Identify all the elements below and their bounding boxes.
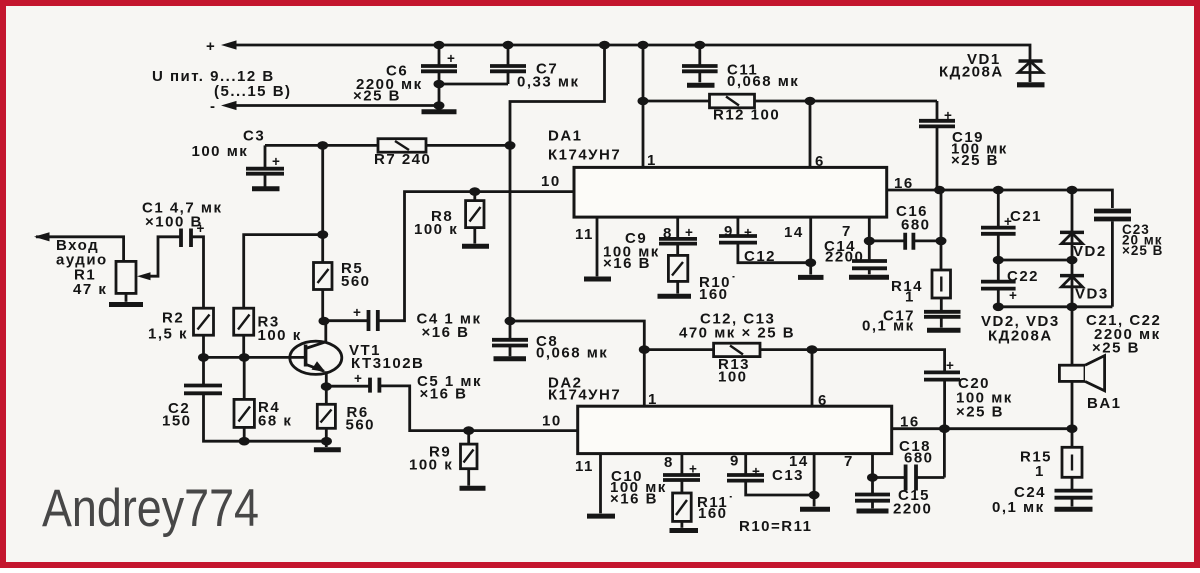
svg-text:C12: C12: [744, 248, 776, 265]
wire emitter node to C5: [326, 385, 370, 388]
ground under C15: [857, 509, 889, 514]
capacitor C15 plates: [855, 495, 890, 501]
svg-text:0,1 мк: 0,1 мк: [992, 499, 1045, 516]
svg-text:×16 В: ×16 В: [420, 386, 468, 403]
resistor R15 body: [1062, 447, 1082, 477]
svg-text:КД208А: КД208А: [939, 64, 1004, 81]
transistor VT1 circle: [290, 341, 342, 374]
capacitor C16 leads: [869, 239, 941, 242]
capacitor C12 leads: [738, 217, 811, 263]
diode VD3 cathode bar: [1060, 274, 1084, 278]
resistor R10 body: [668, 255, 687, 281]
svg-text:160: 160: [699, 286, 729, 303]
junction C16 right / R14: [936, 237, 947, 246]
svg-text:1: 1: [905, 289, 915, 306]
resistor R5 body: [314, 263, 333, 290]
ground pin14 DA2: [800, 507, 830, 512]
wire pin7 DA1: [868, 217, 871, 260]
wire C4 right to pin10 DA1: [378, 192, 574, 321]
junction C22 bottom node: [993, 303, 1004, 312]
resistor R4 lead top: [243, 357, 246, 399]
capacitor C21 plates: [981, 228, 1016, 234]
capacitor C10 plates: [663, 475, 700, 480]
junction C11 top rail: [694, 41, 705, 50]
capacitor C13 leads: [746, 454, 814, 495]
resistor R8 body: [466, 201, 484, 228]
diode VD3 lead: [1071, 260, 1074, 307]
svg-text:×25 В: ×25 В: [1122, 243, 1163, 258]
resistor R10 lead + ground: [676, 281, 679, 293]
junction VD2-VD3 midpoint: [1067, 256, 1078, 265]
diode VD2 cathode bar: [1060, 231, 1084, 235]
capacitor C24 lead + ground: [1071, 498, 1074, 507]
svg-text:×25 В: ×25 В: [1092, 340, 1140, 357]
resistor R6 slash: [321, 410, 332, 423]
resistor R1 body: [116, 261, 136, 293]
svg-text:+: +: [744, 225, 753, 240]
svg-text:+: +: [1009, 288, 1018, 303]
svg-text:×25 В: ×25 В: [956, 404, 1004, 421]
capacitor C6 plates: [421, 66, 457, 71]
resistor R15 lead bottom: [1071, 477, 1074, 490]
resistor R6 body: [317, 404, 335, 428]
resistor R9 body: [461, 444, 478, 469]
svg-text:8: 8: [663, 225, 673, 242]
svg-text:-: -: [210, 98, 217, 115]
junction pin7 DA2 / C15 / C18: [867, 473, 878, 482]
arrowhead input: [34, 232, 50, 241]
capacitor C8 leads: [509, 321, 512, 356]
resistor R9 slash: [464, 450, 474, 463]
arrowhead +rail: [221, 40, 237, 49]
arrowhead -rail: [221, 101, 237, 110]
junction R7 right feed: [505, 141, 516, 150]
capacitor C18 left wire: [873, 476, 906, 479]
capacitor C16 plates: [905, 233, 913, 250]
svg-text:8: 8: [664, 454, 674, 471]
resistor R12 body: [710, 94, 755, 108]
resistor R12 slash: [726, 97, 739, 106]
resistor R8 leads: [473, 192, 476, 244]
svg-text:100 мк: 100 мк: [192, 143, 249, 160]
svg-text:150: 150: [162, 413, 192, 430]
diode VD2 triangle: [1062, 233, 1083, 244]
resistor R7 body: [378, 139, 426, 153]
svg-text:1,5 к: 1,5 к: [148, 326, 188, 343]
ground under R10: [658, 294, 692, 299]
svg-text:VD2: VD2: [1073, 243, 1107, 260]
resistor R11 slash: [676, 500, 687, 515]
svg-text:6: 6: [815, 153, 825, 170]
capacitor C5 plates: [370, 378, 379, 393]
resistor R10 slash: [672, 262, 683, 276]
resistor R9 leads: [467, 431, 470, 486]
resistor R14 body: [932, 270, 951, 298]
capacitor C8 plates: [492, 340, 528, 346]
capacitor C21 leads: [997, 190, 1000, 260]
wire R5 bottom to collector node: [321, 290, 324, 322]
svg-text:0,1 мк: 0,1 мк: [862, 318, 915, 335]
svg-text:+: +: [354, 371, 363, 386]
junction C19 bottom pin16 line: [934, 186, 945, 195]
svg-text:680: 680: [904, 450, 934, 467]
capacitor C15 lead + ground: [871, 501, 874, 509]
junction R2 base node: [198, 353, 209, 362]
diode VD3 triangle: [1062, 276, 1083, 287]
junction C6 top rail: [434, 41, 445, 50]
capacitor C22 leads: [997, 260, 1000, 307]
svg-text:R12 100: R12 100: [713, 107, 780, 124]
resistor R3 slash: [238, 315, 250, 330]
capacitor C2 plates: [184, 386, 222, 394]
wire C5 to pin10 DA2: [379, 386, 577, 431]
svg-text:R2: R2: [162, 310, 184, 327]
junction R4 bottom: [239, 437, 250, 446]
resistor R8 slash: [470, 207, 481, 222]
capacitor C6 leads: [438, 45, 441, 110]
wire C1 to R2: [191, 237, 204, 308]
junction R9 top pin10 DA2 wire: [463, 426, 474, 435]
junction C13 to pin14 DA2 ground: [809, 491, 820, 500]
capacitor C7 plates: [490, 66, 526, 71]
capacitor C15 lead: [871, 478, 874, 494]
capacitor C12 plates: [719, 236, 757, 243]
junction C6 minus rail: [434, 101, 445, 110]
ground under C14: [849, 275, 889, 280]
svg-text:+: +: [197, 221, 206, 236]
resistor R13 slash: [730, 346, 743, 355]
ground under R6: [314, 447, 341, 452]
junction R3 branch: [317, 230, 328, 239]
wire C8 node to pin1 DA2: [510, 321, 644, 406]
wire R1 wiper to C1: [150, 237, 180, 276]
op-amp IC DA2 body: [578, 406, 892, 453]
wire pin1 DA1 drop: [642, 45, 645, 167]
wire +feed to C8 node: [510, 45, 605, 321]
capacitor C18 plates: [906, 465, 916, 491]
svg-text:560: 560: [346, 417, 376, 434]
svg-text:9: 9: [724, 223, 734, 240]
junction R13 left / pin1 DA2: [639, 345, 650, 354]
resistor R3 body: [234, 308, 254, 335]
wire R3 bottom: [242, 335, 245, 357]
capacitor C23 plates: [1094, 211, 1131, 219]
ground under R9: [460, 486, 486, 491]
svg-text:11: 11: [575, 226, 594, 243]
svg-text:+: +: [689, 462, 698, 477]
wire R2 bottom to base node: [202, 335, 205, 357]
resistor R4 lead bottom: [243, 427, 246, 441]
junction R6 bottom ground node: [321, 437, 332, 446]
junction C6-C7 link: [434, 80, 445, 89]
junction feed top rail: [599, 41, 610, 50]
svg-text:7: 7: [844, 453, 854, 470]
junction VD3 bottom / speaker node: [1067, 303, 1078, 312]
wire speaker to output node: [1071, 381, 1074, 428]
ground under R11: [670, 528, 699, 533]
wire bias vertical to R5/R3: [244, 145, 323, 308]
svg-text:+: +: [946, 358, 955, 373]
svg-text:+: +: [944, 108, 953, 123]
resistor R4 body: [234, 399, 254, 427]
svg-text:C13: C13: [772, 467, 804, 484]
svg-text:47 к: 47 к: [73, 281, 107, 298]
capacitor C18 right wire: [917, 429, 945, 478]
svg-text:×25 В: ×25 В: [353, 88, 401, 105]
svg-text:2200: 2200: [893, 501, 932, 518]
svg-text:К174УН7: К174УН7: [548, 147, 621, 164]
resistor R2 slash: [198, 315, 210, 330]
wire node to speaker: [1071, 307, 1074, 365]
ground pin14 DA1: [798, 275, 824, 280]
ground pin11 DA2: [587, 514, 615, 519]
capacitor C11 plates: [682, 66, 718, 71]
wire VD2/VD3 midpoint to C21/C22 midpoint: [998, 259, 1072, 262]
svg-text:68 к: 68 к: [258, 413, 292, 430]
wire R7 leads / bias rail: [265, 144, 510, 147]
svg-text:×25 В: ×25 В: [951, 152, 999, 169]
svg-text:КД208А: КД208А: [988, 328, 1053, 345]
capacitor C20 top wire from pin6 node: [812, 350, 945, 372]
svg-text:100 к: 100 к: [414, 221, 458, 238]
svg-text:10: 10: [541, 173, 561, 190]
junction VD2 pin16 line: [1067, 186, 1078, 195]
transistor VT1 collector: [306, 321, 326, 349]
node C8 feed: [505, 317, 516, 326]
resistor R13 leads: [644, 348, 812, 351]
capacitor C9 leads: [676, 217, 679, 255]
svg-text:6: 6: [818, 392, 828, 409]
svg-text:9: 9: [730, 453, 740, 470]
wire pin6 DA1 drop: [809, 101, 812, 167]
svg-text:Andrey774: Andrey774: [42, 479, 259, 538]
resistor R14 lead: [940, 298, 943, 311]
svg-text:+: +: [685, 225, 694, 240]
svg-text:100: 100: [718, 369, 748, 386]
junction R8 top pin10 wire: [469, 187, 480, 196]
capacitor C1 plates: [181, 229, 191, 248]
resistor R4 slash: [239, 407, 251, 422]
ground under C6: [422, 109, 457, 114]
svg-text:R7 240: R7 240: [374, 151, 431, 168]
svg-text:×100 В: ×100 В: [145, 214, 203, 231]
wire pin14 DA2: [813, 454, 816, 507]
svg-text:11: 11: [575, 458, 594, 475]
wire R12 leads: [643, 100, 937, 103]
svg-text:1: 1: [1035, 463, 1045, 480]
resistor R2 body: [194, 308, 214, 335]
svg-text:C3: C3: [243, 128, 265, 145]
speaker BA1 horn: [1085, 356, 1105, 391]
ground under C8: [494, 356, 527, 361]
svg-text:14: 14: [784, 224, 804, 241]
diode VD1 cathode bar: [1019, 59, 1043, 63]
diode VD2 lead: [1071, 190, 1074, 260]
junction R12 left / pin1 DA1: [638, 97, 649, 106]
svg-text:×16 В: ×16 В: [422, 324, 470, 341]
junction speaker / R15 output node: [1067, 424, 1078, 433]
resistor R1 lead + ground: [125, 293, 128, 301]
capacitor C22 plates: [981, 282, 1016, 289]
svg-text:VD3: VD3: [1075, 286, 1109, 303]
capacitor C4 plates: [369, 310, 378, 331]
svg-text:КТ3102В: КТ3102В: [351, 355, 424, 372]
capacitor C2 leads: [204, 357, 327, 441]
resistor R13 body: [714, 343, 760, 356]
resistor R6 lead + ground: [325, 428, 328, 447]
wire pin16 DA2 output: [892, 427, 1072, 430]
speaker BA1 box: [1059, 365, 1085, 381]
junction R3/R4 base node: [239, 353, 250, 362]
resistor R11 lead + ground: [681, 521, 684, 527]
svg-text:+: +: [272, 154, 281, 169]
svg-text:560: 560: [341, 273, 371, 290]
svg-text:0,33 мк: 0,33 мк: [517, 74, 579, 91]
svg-text:16: 16: [894, 175, 914, 192]
arrowhead VT1 emitter: [312, 361, 326, 372]
resistor R15 lead: [1071, 429, 1074, 448]
ground pin11 DA1: [584, 277, 611, 282]
wire pin14 DA1: [809, 217, 812, 274]
ground under C24: [1055, 507, 1093, 512]
op-amp IC DA1 body: [574, 167, 887, 217]
capacitor C24 plates: [1055, 491, 1093, 498]
resistor R5 slash: [318, 269, 329, 283]
svg-text:0,068 мк: 0,068 мк: [536, 345, 608, 362]
svg-text:680: 680: [901, 217, 931, 234]
wire base node line: [204, 356, 306, 359]
wire pin7 DA2: [871, 454, 874, 478]
node VT1 emitter / C5: [321, 382, 332, 391]
svg-text:100 к: 100 к: [258, 327, 302, 344]
capacitor C19 plates: [919, 121, 955, 127]
svg-text:C21: C21: [1010, 208, 1042, 225]
transistor VT1 emitter: [306, 364, 327, 404]
junction R13 right / pin6 DA2: [807, 345, 818, 354]
wire pin11 DA1: [596, 217, 599, 276]
svg-text:16: 16: [900, 414, 920, 431]
wire +rail top: [229, 45, 1030, 82]
capacitor C17 plates: [924, 312, 961, 317]
ground under C17: [927, 328, 961, 333]
ground under C3: [252, 186, 280, 191]
capacitor C3 lead top: [264, 145, 267, 186]
junction pin7 DA1 / C14 / C16: [864, 237, 875, 246]
junction C12 to pin14 ground: [805, 258, 816, 267]
capacitor C19 leads: [936, 101, 939, 190]
capacitor C11 leads: [698, 45, 701, 82]
svg-text:1: 1: [648, 391, 658, 408]
junction bias tap R7 wire: [317, 141, 328, 150]
capacitor C14 lead + ground: [868, 268, 871, 274]
capacitor C20 plates: [924, 372, 960, 379]
svg-text:C22: C22: [1007, 268, 1039, 285]
svg-text:+: +: [752, 464, 761, 479]
svg-text:160: 160: [698, 505, 728, 522]
ground under R8: [462, 244, 489, 249]
wire input arrow line: [36, 237, 124, 262]
wire C4 left: [324, 319, 368, 322]
resistor R14 mark: [940, 277, 942, 292]
capacitor C3 plates: [246, 169, 284, 174]
resistor R7 slash: [395, 141, 409, 150]
junction C21-C22 midpoint: [993, 256, 1004, 265]
junction pin1 top rail: [638, 41, 649, 50]
wire C19 bottom / R14 column: [940, 190, 943, 270]
svg-text:×16 В: ×16 В: [603, 255, 651, 272]
transistor VT1 base bar: [304, 345, 308, 367]
capacitor C13 plates: [727, 475, 764, 481]
svg-text:+: +: [1004, 214, 1013, 229]
svg-text:(5...15 В): (5...15 В): [214, 83, 292, 100]
capacitor C23 lead: [1111, 221, 1114, 306]
svg-text:2200: 2200: [825, 249, 864, 266]
svg-text:×16 В: ×16 В: [610, 491, 658, 508]
svg-text:470 мк × 25 В: 470 мк × 25 В: [679, 325, 795, 342]
wire pin11 DA2: [599, 454, 602, 514]
junction C7 top rail: [503, 41, 514, 50]
svg-text:+: +: [353, 305, 362, 320]
junction C20 bottom / C18 output line: [939, 424, 950, 433]
svg-text:10: 10: [542, 413, 562, 430]
svg-text:DA1: DA1: [548, 128, 583, 145]
wire pin6 DA2 drop: [811, 350, 814, 407]
junction R12 right / pin6 DA1: [805, 97, 816, 106]
capacitor C10 leads: [681, 454, 684, 493]
svg-text:0,068 мк: 0,068 мк: [727, 73, 799, 90]
capacitor C14 plates: [852, 261, 887, 268]
capacitor C20 lead bottom: [943, 380, 946, 429]
svg-text:+: +: [206, 38, 216, 55]
capacitor C9 plates: [659, 239, 697, 244]
svg-text:+: +: [447, 51, 456, 66]
svg-text:1: 1: [647, 152, 657, 169]
wire C6-C7 bottom link: [439, 72, 508, 84]
svg-text:BA1: BA1: [1087, 395, 1122, 412]
svg-text:К174УН7: К174УН7: [548, 387, 621, 404]
svg-text:R10=R11: R10=R11: [739, 518, 812, 535]
svg-text:100 к: 100 к: [409, 457, 453, 474]
node VT1 collector / R5 / C4: [319, 317, 330, 326]
junction C21 pin16 line: [993, 186, 1004, 195]
capacitor C17 lead + ground: [940, 317, 943, 328]
wire bottom node C22-VD3-C23: [998, 305, 1112, 308]
resistor R11 body: [673, 493, 692, 521]
ground under C11: [687, 83, 715, 88]
resistor R15 mark: [1071, 455, 1073, 471]
wire pin16 DA1 output line: [887, 190, 1113, 208]
ground under R1: [109, 302, 143, 307]
ground under VD1: [1017, 82, 1045, 87]
wire -rail: [229, 104, 439, 107]
capacitor C7 lead: [507, 45, 510, 65]
diode VD1 triangle: [1019, 62, 1043, 73]
arrowhead R1 wiper: [137, 272, 151, 280]
